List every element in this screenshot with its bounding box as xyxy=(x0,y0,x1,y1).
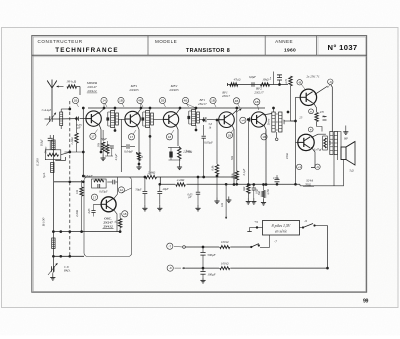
test point 1 xyxy=(72,97,78,107)
cap 0,05 mid xyxy=(185,149,193,200)
page number 99 xyxy=(363,298,368,304)
wire antenna to resistor xyxy=(57,85,64,87)
label minus7 tap xyxy=(274,239,277,243)
svg-text:4B: 4B xyxy=(184,99,188,103)
wire IFT2 to T3 base xyxy=(154,118,165,120)
wire input drop xyxy=(79,87,81,96)
svg-text:PAD.: PAD. xyxy=(63,268,71,272)
bias chain wire xyxy=(228,72,289,87)
svg-text:6,8μF: 6,8μF xyxy=(249,75,256,79)
cap 0,04 with arrow xyxy=(115,119,141,172)
wire gang junction xyxy=(65,151,85,154)
junction dots extra xyxy=(216,111,290,186)
label 1,5k mid xyxy=(267,189,270,194)
vertical wire x83 xyxy=(82,107,85,178)
label 6,8 osc xyxy=(84,174,92,178)
resistor 2,2k vertical xyxy=(75,117,78,152)
ground osc left xyxy=(0,0,1,1)
label 2x 2N171 xyxy=(306,75,320,79)
osc resistor 10k xyxy=(80,180,83,233)
svg-text:4,7Ω: 4,7Ω xyxy=(267,189,270,194)
label HP xyxy=(343,137,348,141)
label speaker xyxy=(349,169,354,174)
svg-text:-7: -7 xyxy=(168,244,171,248)
osc coil xyxy=(52,238,55,249)
svg-text:1B: 1B xyxy=(119,99,123,103)
label CV PAD xyxy=(63,265,71,273)
capacitor C base T1 xyxy=(77,117,79,121)
transistor T5 driver xyxy=(251,112,266,127)
wire osc left link xyxy=(54,180,85,183)
resistor T1 bias xyxy=(101,130,106,161)
osc trimmer CV2 xyxy=(48,248,58,275)
svg-text:1B: 1B xyxy=(74,99,78,103)
svg-text:50μF: 50μF xyxy=(101,137,107,141)
test point T1 e xyxy=(90,130,98,140)
svg-text:-B: -B xyxy=(298,80,301,84)
resistor 7,5k xyxy=(258,184,266,205)
svg-text:N° 1037: N° 1037 xyxy=(328,43,358,52)
transistor T8 oscillator xyxy=(101,197,116,212)
svg-text:100 Ω: 100 Ω xyxy=(221,240,229,244)
coupling cap T4 xyxy=(204,117,219,122)
label MF2 2N405 xyxy=(169,84,178,92)
electrolytic 500uF xyxy=(200,246,215,268)
svg-text:Th: Th xyxy=(322,115,326,119)
T2 emitter lead xyxy=(137,124,139,160)
T4 emitter lead xyxy=(232,125,234,184)
svg-text:-9: -9 xyxy=(329,80,332,84)
label 6,8k xyxy=(211,165,216,171)
parallel RC T3 emitter xyxy=(168,130,182,170)
variable capacitor CV1 xyxy=(45,113,59,126)
circle e1 xyxy=(309,109,314,114)
test point T3 e xyxy=(166,130,174,140)
driver transformer xyxy=(272,107,282,141)
B100 coil mid xyxy=(51,163,54,173)
circle 17 xyxy=(91,194,97,200)
svg-text:1960: 1960 xyxy=(284,47,296,53)
svg-text:1B: 1B xyxy=(161,99,165,103)
wire T6 collector xyxy=(315,85,333,132)
cap 0,05 mid2 xyxy=(195,177,200,211)
svg-text:en série: en série xyxy=(275,229,288,234)
T1 emitter lead xyxy=(83,124,102,153)
svg-text:0,1μF: 0,1μF xyxy=(115,153,118,160)
svg-text:100μF: 100μF xyxy=(207,272,215,276)
svg-text:17: 17 xyxy=(91,134,95,138)
label 10k osc xyxy=(75,189,79,217)
resistor 6,8k xyxy=(214,165,219,204)
AGC electrolytic 50uF xyxy=(41,135,53,150)
test point 3 xyxy=(118,97,124,107)
circle 18 xyxy=(122,211,128,217)
T5 emitter lead xyxy=(264,125,266,185)
label 470 out xyxy=(320,110,325,114)
label OSC 2N247 2N412 xyxy=(102,216,113,228)
label 1k osc xyxy=(114,220,118,223)
svg-text:TECHNIFRANCE: TECHNIFRANCE xyxy=(55,47,118,54)
IF transformer 3 xyxy=(187,107,199,132)
wire busB to speaker return xyxy=(299,184,301,186)
label 0,05uF input xyxy=(76,123,82,130)
circle minusB top xyxy=(297,80,306,91)
header text CONSTRUCTEUR / TECHNIFRANCE xyxy=(38,39,119,54)
svg-text:17: 17 xyxy=(130,135,134,139)
transistor T6 output upper xyxy=(300,89,316,105)
antenna xyxy=(47,80,57,119)
osc box xyxy=(84,177,132,257)
svg-text:39 k.Ω: 39 k.Ω xyxy=(67,79,77,83)
transistor T3 MF2 xyxy=(163,112,178,127)
svg-text:14: 14 xyxy=(102,99,106,103)
wire tap minus7 xyxy=(260,235,270,248)
label 0,47uF xyxy=(314,147,323,152)
svg-text:1B: 1B xyxy=(255,100,259,104)
ground bottom left xyxy=(50,273,55,281)
label BOsc xyxy=(44,146,48,154)
label 2N412 underline2 xyxy=(87,92,97,94)
transistor T4 BF1 xyxy=(219,112,235,128)
label 2,2k vert xyxy=(70,137,75,145)
svg-text:MODELE: MODELE xyxy=(155,39,177,44)
test point 2 xyxy=(101,97,107,107)
svg-text:100k: 100k xyxy=(230,173,234,179)
transformer bottom wire xyxy=(333,155,335,186)
circle e2 xyxy=(308,127,313,132)
svg-text:4kΩ: 4kΩ xyxy=(282,120,286,125)
svg-text:470Ω: 470Ω xyxy=(286,153,289,159)
T3 collector lead xyxy=(176,107,182,115)
test point T2 e xyxy=(128,130,136,140)
T1 collector lead xyxy=(98,107,105,114)
battery minus switch xyxy=(300,219,328,228)
volume arrow xyxy=(225,183,228,219)
osc coupling cap xyxy=(107,180,117,185)
osc right wire xyxy=(121,188,131,193)
svg-text:1kΩ: 1kΩ xyxy=(242,187,246,192)
wire T5 base xyxy=(251,119,254,121)
wire bus B right xyxy=(299,185,301,186)
test point T5 top xyxy=(254,99,260,110)
wire cap to T1 base xyxy=(80,118,87,120)
cap base T5 xyxy=(250,117,253,122)
svg-text:4B: 4B xyxy=(138,99,142,103)
speaker xyxy=(341,142,355,166)
header text MODELE / TRANSISTOR 8 xyxy=(155,39,230,54)
wire left col vertical xyxy=(52,135,54,273)
label 39k xyxy=(67,79,77,83)
output transformer xyxy=(330,132,338,155)
test point 5 xyxy=(159,97,165,107)
power right vertical xyxy=(327,226,329,269)
svg-text:560: 560 xyxy=(258,190,261,195)
terminal minus7 xyxy=(167,243,186,249)
label BF1 2N217 xyxy=(198,90,230,106)
svg-text:μF: μF xyxy=(77,126,81,130)
electrolytic 50uF bus xyxy=(135,176,147,211)
speaker return wire xyxy=(300,160,344,186)
T7 emitter wire xyxy=(311,147,315,167)
T6 emitter resistor xyxy=(313,103,322,132)
resistor box output xyxy=(323,136,333,150)
osc feedback line xyxy=(131,190,133,254)
IF transformer 2 xyxy=(141,107,153,179)
battery plus terminal xyxy=(247,220,262,231)
svg-text:47k.Ω: 47k.Ω xyxy=(234,78,241,81)
svg-text:0,1μF: 0,1μF xyxy=(242,168,246,175)
header table rules xyxy=(32,36,367,57)
wire driver sec to bases xyxy=(284,97,300,185)
svg-text:-9: -9 xyxy=(316,165,319,169)
svg-text:150μ: 150μ xyxy=(273,176,279,180)
schematic frame xyxy=(32,36,367,293)
svg-text:-7: -7 xyxy=(274,239,277,243)
capacitor chain xyxy=(277,75,282,86)
test point T5 e xyxy=(261,131,267,140)
resistor 39k xyxy=(67,85,80,88)
svg-text:100: 100 xyxy=(328,140,332,145)
label B100 xyxy=(41,218,45,227)
header text N 1037 xyxy=(328,43,358,52)
wire IFT1 to T2 base xyxy=(119,118,126,120)
svg-text:B.8μF: B.8μF xyxy=(41,139,44,146)
leader MF circles xyxy=(104,103,196,108)
label 2,2k T3 xyxy=(183,150,191,155)
label driver xyxy=(266,118,286,126)
cap 0,05 T4 base xyxy=(202,119,213,177)
resistor 4,7k driver base xyxy=(289,76,296,121)
wire y231 xyxy=(52,230,121,233)
svg-text:-9: -9 xyxy=(169,266,172,270)
label 1k xyxy=(242,187,246,192)
svg-text:470: 470 xyxy=(320,110,325,114)
label E200 xyxy=(36,158,40,167)
svg-text:1A: 1A xyxy=(120,188,124,192)
wire y256 xyxy=(52,255,84,258)
label 4,7k xyxy=(285,78,288,83)
label 0,1uF xyxy=(242,168,246,175)
wire IFT3 sec to cap xyxy=(199,119,202,121)
resistor 100k xyxy=(235,108,238,186)
electrolytic 10uF bus xyxy=(157,183,169,211)
wire sec to speaker top xyxy=(338,126,349,148)
label 50k xyxy=(230,155,234,160)
svg-text:17: 17 xyxy=(93,195,97,199)
svg-text:E.200: E.200 xyxy=(36,158,40,167)
transistor T1 mixer xyxy=(86,111,101,126)
svg-text:18: 18 xyxy=(123,212,127,216)
bottom supply wire xyxy=(186,267,329,270)
svg-text:2,2kΩ: 2,2kΩ xyxy=(76,210,79,217)
wire coil top to gang xyxy=(61,108,71,111)
ground mid1 xyxy=(226,197,231,203)
wire switch feed xyxy=(185,246,251,248)
B100 coil upper xyxy=(52,140,55,150)
svg-text:CONSTRUCTEUR: CONSTRUCTEUR xyxy=(38,39,83,44)
svg-text:10k: 10k xyxy=(75,189,79,194)
circle minus9 top xyxy=(328,79,333,88)
transistor T7 output lower xyxy=(298,134,314,150)
osc base wire xyxy=(94,203,102,205)
test point 4 xyxy=(137,97,143,107)
svg-text:7μ/A: 7μ/A xyxy=(42,173,46,179)
label volume xyxy=(221,202,224,207)
resistor 2,2k bus A xyxy=(146,170,157,179)
label MF1 2N405 xyxy=(129,84,138,92)
test point 6 xyxy=(182,97,188,107)
svg-text:B/100: B/100 xyxy=(41,218,45,227)
resistor 1k T5 xyxy=(246,120,251,205)
resistor 2,2k bus B xyxy=(175,178,186,187)
label CA 4u5 xyxy=(42,108,52,112)
svg-text:7002: 7002 xyxy=(305,183,311,187)
svg-text:2x 2N1 71: 2x 2N1 71 xyxy=(306,75,320,79)
label 7pA xyxy=(42,173,46,179)
T3 emitter lead xyxy=(176,124,178,146)
svg-text:2N412: 2N412 xyxy=(102,225,113,229)
svg-text:4B: 4B xyxy=(235,99,239,103)
svg-text:10kΩ: 10kΩ xyxy=(262,77,268,81)
top supply bus xyxy=(88,107,265,109)
wire sec to speaker bottom xyxy=(337,155,339,161)
svg-text:2N217: 2N217 xyxy=(254,91,263,95)
IF transformer 1 xyxy=(106,107,118,132)
svg-text:TRANSISTOR 8: TRANSISTOR 8 xyxy=(186,48,230,54)
battery box xyxy=(263,221,300,236)
header text ANNEE / 1960 xyxy=(275,39,296,53)
svg-text:2N217: 2N217 xyxy=(222,94,231,98)
labels 5,0 1k xyxy=(209,122,213,129)
T4 collector lead xyxy=(232,107,242,115)
circle 1A xyxy=(118,187,124,193)
osc collector wire xyxy=(113,178,117,200)
cap across emitter res xyxy=(323,116,327,124)
AGC RC box xyxy=(45,150,70,160)
wire node to base cap xyxy=(58,118,76,120)
svg-text:2N405: 2N405 xyxy=(129,88,138,92)
electrolytic 100uF xyxy=(200,268,215,283)
osc cap 0,05 xyxy=(88,204,96,216)
svg-text:3m: 3m xyxy=(269,77,272,80)
svg-text:4,7k: 4,7k xyxy=(285,78,288,83)
svg-text:100 Ω: 100 Ω xyxy=(221,261,229,265)
svg-text:500μF: 500μF xyxy=(207,253,215,257)
RC T1 emitter xyxy=(101,137,114,156)
wire chain drop xyxy=(239,85,241,109)
resistor 100 switch xyxy=(219,240,230,249)
svg-text:40μF: 40μF xyxy=(162,187,168,191)
electrolytic 150uF xyxy=(273,175,279,186)
svg-text:2N405: 2N405 xyxy=(169,88,178,92)
resistor 1k osc xyxy=(118,213,121,232)
T2 collector lead xyxy=(137,107,143,115)
test point 7 xyxy=(210,97,216,107)
svg-text:2N217: 2N217 xyxy=(198,102,207,106)
bus A y177 xyxy=(84,176,237,179)
svg-text:-9: -9 xyxy=(304,219,307,223)
svg-text:HP: HP xyxy=(343,137,348,141)
svg-text:Drive: Drive xyxy=(266,118,270,126)
cap 10uF T5 xyxy=(251,185,259,205)
label thermistor xyxy=(299,115,325,120)
label 39k bias xyxy=(97,142,101,147)
test point T4 e xyxy=(226,130,233,139)
label 324A xyxy=(303,179,314,187)
test point right mid xyxy=(240,117,246,123)
svg-text:0,05: 0,05 xyxy=(88,208,91,213)
circle tp bias xyxy=(297,164,302,169)
tuning gang dashed line xyxy=(69,101,71,257)
svg-text:μF: μF xyxy=(188,196,191,199)
svg-text:6,8μμF: 6,8μμF xyxy=(84,174,92,178)
test point 8 xyxy=(233,98,239,108)
bus B y184.3 xyxy=(160,177,300,184)
circle minusB low xyxy=(315,164,320,169)
svg-text:1B: 1B xyxy=(228,133,232,137)
transistor T2 MF1 xyxy=(125,111,140,126)
label BF2 2N217 xyxy=(254,87,263,95)
switch S1 xyxy=(250,244,260,248)
svg-text:+9: +9 xyxy=(254,220,258,224)
T4 base bias drop xyxy=(216,119,219,164)
svg-text:50μF: 50μF xyxy=(135,188,141,192)
svg-text:+1: +1 xyxy=(297,165,301,169)
svg-text:C.A.4μ5: C.A.4μ5 xyxy=(42,108,52,112)
terminal arrow minus9 xyxy=(167,265,185,271)
svg-text:50k: 50k xyxy=(230,155,234,160)
svg-text:+4: +4 xyxy=(241,118,245,122)
wire T7 collector xyxy=(311,134,326,137)
svg-text:18: 18 xyxy=(262,135,266,139)
coil top jog xyxy=(55,157,65,161)
T2 emitter ground parts xyxy=(136,153,143,170)
svg-text:99: 99 xyxy=(363,298,368,304)
label MIXER 2N247 2N412 xyxy=(86,81,98,93)
T5 collector lead xyxy=(263,114,272,115)
svg-text:ANNEE: ANNEE xyxy=(275,39,293,44)
osc emitter wire xyxy=(113,209,117,231)
osc RC parallel xyxy=(92,179,108,194)
svg-text:2N412: 2N412 xyxy=(87,89,96,93)
antenna coil L1 xyxy=(60,109,63,129)
svg-text:1B: 1B xyxy=(211,99,215,103)
resistor 100 bottom xyxy=(219,261,230,270)
svg-text:18: 18 xyxy=(168,135,172,139)
labels chain xyxy=(234,75,273,82)
label 100k xyxy=(230,173,234,179)
